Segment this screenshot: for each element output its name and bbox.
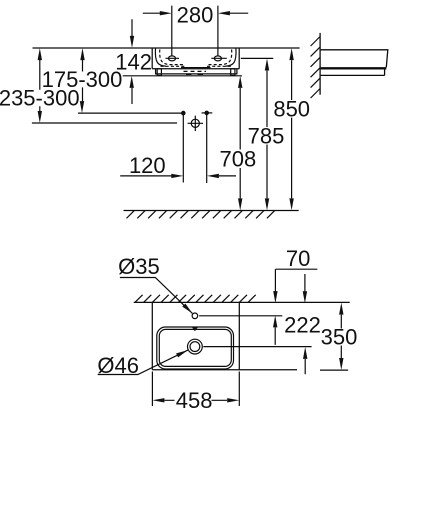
svg-text:Ø35: Ø35 (118, 254, 160, 279)
svg-text:235-300: 235-300 (0, 86, 80, 111)
svg-text:458: 458 (176, 388, 213, 413)
svg-text:350: 350 (321, 325, 358, 350)
svg-text:280: 280 (177, 3, 214, 28)
svg-text:120: 120 (129, 153, 166, 178)
svg-text:Ø46: Ø46 (97, 353, 139, 378)
svg-text:850: 850 (273, 97, 310, 122)
svg-text:785: 785 (248, 124, 285, 149)
svg-text:222: 222 (284, 313, 321, 338)
svg-text:708: 708 (220, 147, 257, 172)
svg-text:70: 70 (286, 246, 310, 271)
